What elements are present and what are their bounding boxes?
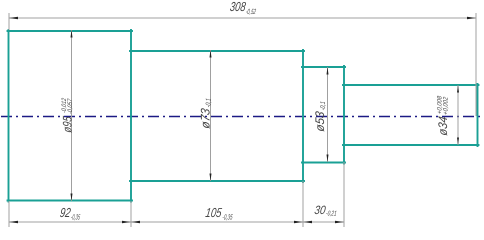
arrow ø53 bottom [327,155,329,163]
arrow ø34 bottom [457,138,459,146]
svg-text:-0,1: -0,1 [320,101,327,111]
arrow 30 right [335,221,344,224]
extension line 92/105 shared [130,201,132,227]
dim text 308 -0,52 [229,0,258,16]
step 3 outline (ø53 cylinder) [302,66,345,164]
svg-text:308: 308 [229,0,247,14]
step 1 outline (ø95 cylinder) [8,30,133,202]
svg-text:-0,52: -0,52 [245,7,257,16]
extension line 30 right [343,162,345,227]
svg-text:ø34: ø34 [436,115,450,136]
svg-text:ø53: ø53 [313,110,327,132]
arrow 92 left [9,221,18,224]
dim text ø34 +0,008/+0,002 (rotated) [436,95,450,136]
arrow ø95 top [71,30,73,38]
dim text ø95 -0,012/-0,057 (rotated) [61,97,75,133]
dimension line ø95 [71,30,73,201]
arrow ø34 top [457,85,459,93]
dimension line ø73 [210,50,212,181]
dimension line ø53 [327,67,329,162]
dim text ø53 -0,1 (rotated) [313,100,327,133]
dim text 30 -0,21 [314,203,339,217]
dim text 92 -0,35 [59,205,82,221]
arrow ø73 bottom [210,174,212,182]
svg-text:-0,35: -0,35 [70,213,81,222]
svg-text:-0,057: -0,057 [67,98,74,114]
dimension line 308 [9,17,476,19]
arrow 105 left [131,221,140,224]
dimension line ø34 [457,85,459,145]
extension line 308 left [8,13,10,30]
svg-text:-0,1: -0,1 [206,98,213,108]
svg-text:+0,002: +0,002 [443,96,450,115]
dim text ø73 -0,1 (rotated) [199,97,213,130]
step 2 outline (ø73 cylinder) [130,50,304,182]
svg-text:30: 30 [314,203,327,217]
extension line 308 right [475,13,477,116]
dim text 105 -0,35 [204,205,234,221]
arrow ø53 top [327,67,329,75]
arrow 308 right [467,17,476,20]
svg-text:-0,21: -0,21 [326,211,338,218]
arrow 105 right [294,221,303,224]
svg-text:-0,35: -0,35 [222,213,234,222]
arrow ø95 bottom [71,194,73,202]
svg-text:ø95: ø95 [61,115,75,134]
extension line 92 left [8,201,10,227]
arrow 92 right [122,221,131,224]
dimension line 30 [303,221,344,223]
arrow 30 left [303,221,312,224]
svg-text:105: 105 [205,205,224,220]
arrow ø73 top [210,50,212,58]
step 4 outline (ø34 cylinder) [343,84,479,146]
arrow 308 left [9,17,18,20]
dimension line 105 [131,221,303,223]
extension line 105/30 shared [302,181,304,227]
svg-text:ø73: ø73 [199,107,213,129]
centerline (shaft axis) [1,116,484,118]
dimension line 92 [9,221,131,223]
